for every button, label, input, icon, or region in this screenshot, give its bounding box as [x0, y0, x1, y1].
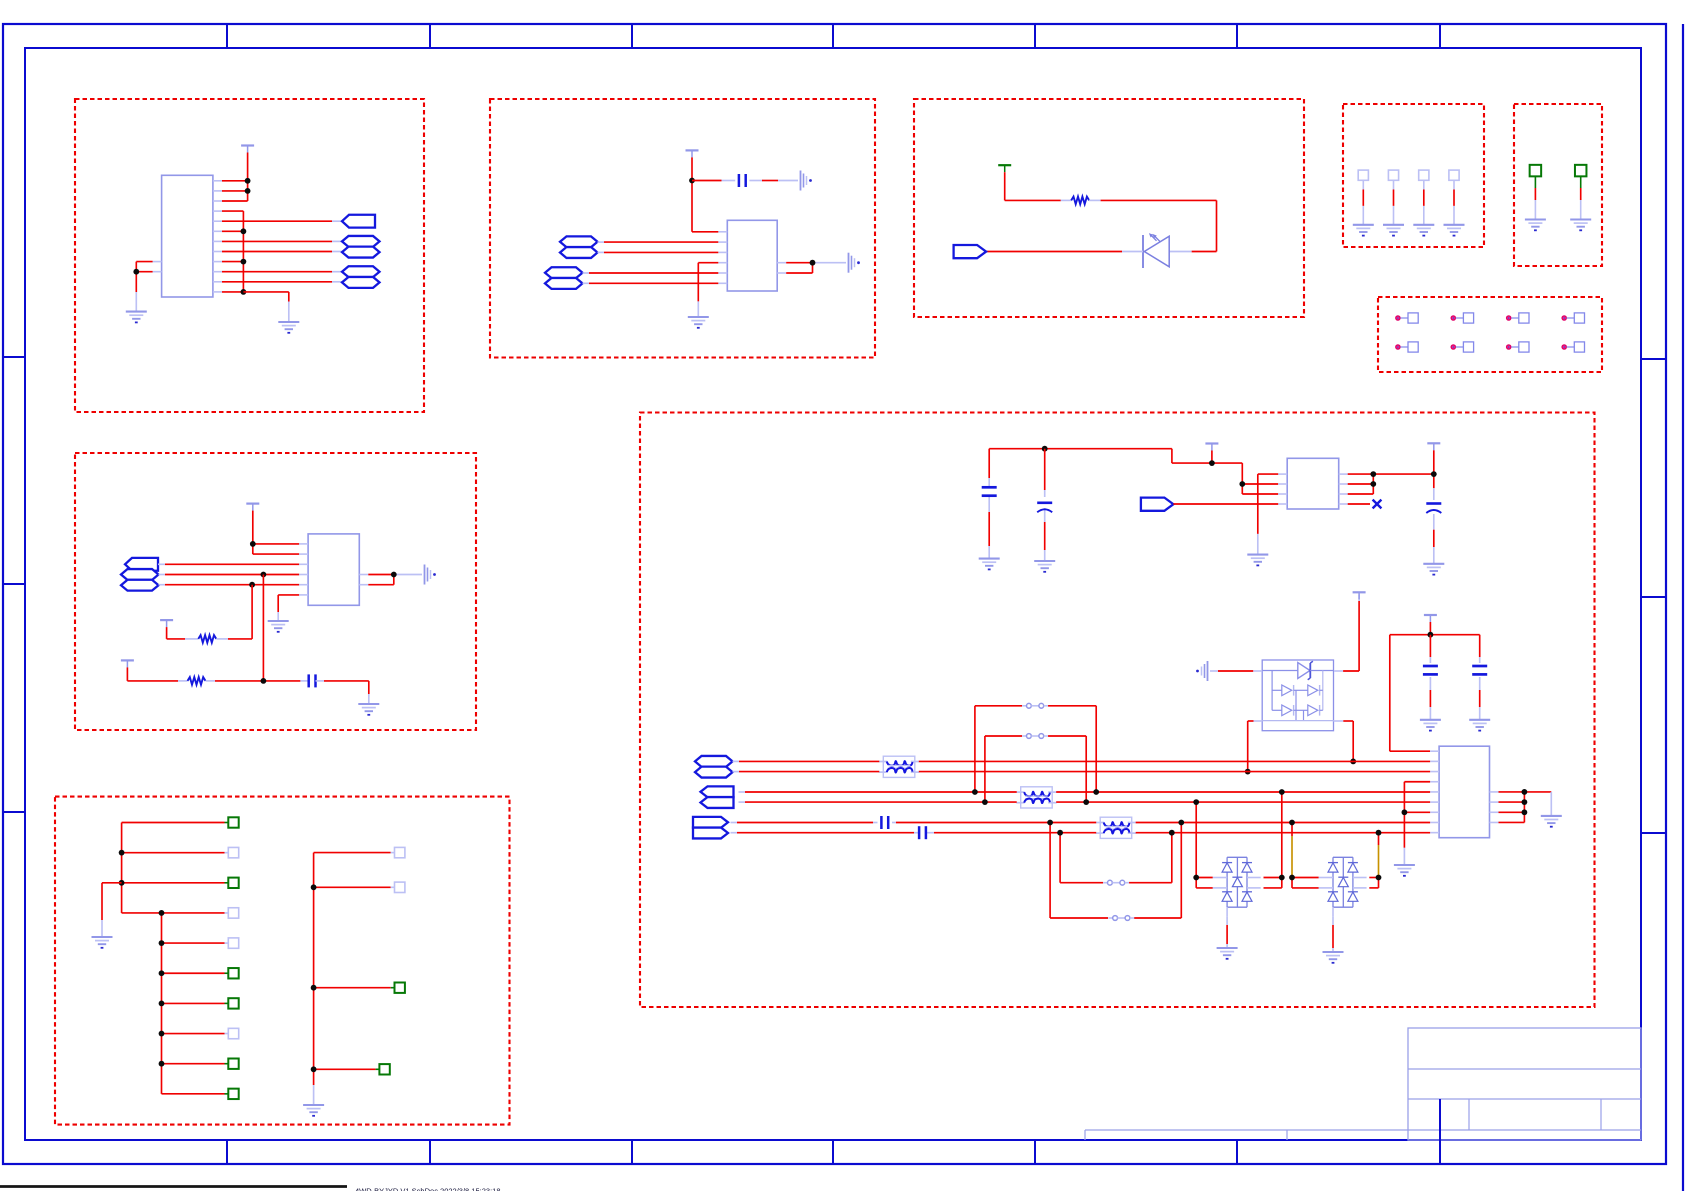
wire VCC D3 to R3	[127, 667, 187, 681]
junction dot B vcc	[689, 178, 695, 184]
ground D right (sideways)	[425, 565, 436, 585]
net label tag F2b	[701, 797, 734, 808]
wire VCC F1 stub	[1211, 451, 1213, 464]
ground C7	[1423, 564, 1444, 575]
wire row2a	[739, 791, 1431, 793]
wire VCC B rail	[692, 157, 718, 231]
capacitor C8	[1423, 666, 1438, 674]
testpoint TP4	[1449, 170, 1459, 225]
junction dot D bottom	[261, 678, 267, 684]
net label hex D2	[121, 569, 159, 580]
IC U2	[718, 220, 786, 291]
wire pin5 branch to R2	[251, 585, 253, 639]
junction dot J5 gnd	[1402, 809, 1408, 815]
diode array D2	[1262, 660, 1333, 731]
ground MH2	[1570, 220, 1591, 231]
wire common net U1 pins 4,6,9,12	[222, 211, 243, 292]
ground U4	[1247, 555, 1268, 566]
jumper JP2	[985, 734, 1086, 803]
testpoint TP3	[1419, 170, 1429, 225]
wire P2 to U4 pin4	[1173, 503, 1278, 505]
power VCC F1 right	[1427, 443, 1440, 450]
wire D3 ground	[1226, 916, 1228, 948]
testpoint TP2	[1388, 170, 1398, 225]
fiducial pad F4	[1562, 313, 1584, 323]
ground B right (sideways)	[849, 253, 860, 273]
wire U1 pin11 to net label	[222, 281, 342, 283]
wire VCC D to U3 pins 1-2	[253, 511, 299, 554]
LED D1	[1143, 233, 1169, 268]
ground A left	[126, 312, 147, 323]
ground E right	[303, 1105, 324, 1116]
wire C8 leads	[1429, 635, 1431, 720]
wire U1 pin5 to net label	[222, 220, 342, 222]
svg-text:4WD-BYJYD V1.SchDoc 2022/3/8: 4WD-BYJYD V1.SchDoc 2022/3/8 15:23:18	[355, 1187, 501, 1191]
ground C8	[1420, 720, 1441, 731]
ground C6	[1034, 561, 1055, 572]
wire header pin 5	[162, 942, 229, 944]
choke L3	[1096, 817, 1137, 838]
junction dot VCC right	[1431, 471, 1437, 477]
wire D2 right to power	[1334, 595, 1359, 672]
ground TP3	[1413, 225, 1434, 236]
capacitor C6 (polarized)	[1037, 503, 1052, 513]
wire C6 leads	[1044, 449, 1046, 561]
wire VCC F2 rail	[1390, 622, 1480, 751]
power VCC D3	[121, 660, 134, 667]
wire E ground branch	[102, 883, 122, 937]
fiducial pad F5	[1396, 342, 1418, 352]
ground B bottom	[688, 317, 709, 328]
capacitor C11 (series row3b)	[919, 826, 926, 839]
power VCC F2	[1424, 615, 1437, 622]
wire B2b to U2 pin6	[583, 282, 719, 284]
sheet symbol box C	[914, 99, 1304, 317]
power rail C (green)	[998, 165, 1011, 172]
wire header-right pin 1	[314, 852, 395, 854]
wire D2 to U3 pin4	[159, 574, 300, 576]
wire D1 to U3 pin3	[158, 563, 299, 565]
wire D2 left to ground	[1210, 670, 1262, 672]
junction dot B right	[810, 260, 816, 266]
fiducial pad F7	[1507, 342, 1529, 352]
wire C2 to ground D	[316, 681, 369, 704]
IC U4 regulator	[1278, 458, 1348, 509]
wire D4 left (yellow link)	[1292, 823, 1319, 888]
mounting pad MH1	[1530, 165, 1542, 220]
net label hex B1b	[560, 247, 598, 258]
wire header-right pin 3	[314, 987, 395, 989]
sheet symbol box A	[75, 99, 424, 412]
capacitor C10 (series row3a)	[881, 816, 888, 829]
power VCC D	[246, 504, 259, 511]
wire header pin 3	[122, 882, 229, 884]
pad header-left 8	[228, 1028, 238, 1038]
wire U1 pin10 to net label	[222, 271, 342, 273]
wire header pin 2	[122, 852, 229, 854]
junction dot D pin4	[261, 572, 267, 578]
wire row3b	[731, 832, 1431, 834]
fiducial pad F8	[1562, 342, 1584, 352]
wire C5 leads	[988, 449, 990, 559]
wire header pin 7	[162, 1002, 229, 1004]
wire U4 outputs right	[1348, 474, 1434, 494]
ground TP2	[1383, 225, 1404, 236]
wire D2 low-side right to CAN line	[1334, 721, 1354, 761]
ground TP1	[1353, 225, 1374, 236]
net label hex A4	[342, 266, 380, 277]
wire header-right pin 2	[314, 886, 395, 888]
pad header-left 5	[228, 938, 238, 948]
wire U2 right pins to ground	[786, 263, 846, 273]
jumper JP4	[1050, 823, 1181, 921]
net label tag D1	[125, 558, 158, 571]
net label tag F3a	[693, 817, 728, 828]
wire header bus right	[313, 853, 315, 1105]
net label tag F3b	[693, 828, 728, 839]
ground D cap	[358, 704, 379, 715]
choke L1	[879, 756, 920, 777]
port P2	[1141, 498, 1174, 511]
sheet symbol box I	[1378, 297, 1602, 372]
ground J5 right	[1541, 816, 1562, 827]
wire R2 to pin5 branch	[216, 638, 252, 640]
wire D3 to U3 pin5	[159, 584, 300, 586]
wire VCC to U1 pins 1-3	[222, 153, 248, 202]
wire R1 to LED anode	[1089, 200, 1217, 251]
net label hex D3	[121, 580, 159, 591]
wire row1b	[733, 771, 1431, 773]
wire header bus left	[122, 823, 162, 1094]
IC U1	[153, 175, 222, 297]
fiducial pad F1	[1396, 313, 1418, 323]
wire J5 pin4/pin7 ground	[1404, 782, 1430, 865]
port P1	[954, 245, 987, 258]
pad header-left 2	[228, 847, 238, 857]
title block	[1085, 1028, 1641, 1164]
wire D3 right	[1264, 792, 1282, 888]
junction dot F1 a	[1209, 460, 1215, 466]
junction dots E left	[119, 850, 165, 1067]
net label hex F1a	[695, 756, 733, 767]
junction dots U4 out	[1370, 471, 1376, 487]
junction dots VCC net	[245, 178, 251, 194]
net label hex B2a	[545, 267, 583, 278]
no-connect X U4 pin	[1348, 500, 1382, 509]
capacitor C2 (series)	[309, 674, 316, 687]
wire header pin 4	[162, 912, 229, 914]
ground E left	[92, 937, 113, 948]
sheet symbol box B	[490, 99, 875, 358]
TVS array D4	[1319, 857, 1367, 916]
wire U1 left pins to ground	[136, 262, 152, 312]
power VCC F1	[1205, 444, 1218, 451]
wire header pin 10	[162, 1093, 229, 1095]
fiducial pad F6	[1451, 342, 1473, 352]
junction dot D pin5	[249, 582, 255, 588]
net label tag A1	[342, 215, 375, 228]
net label hex B2b	[545, 278, 583, 289]
sheet symbol box H	[1514, 104, 1602, 266]
wire U4 pin1 to ground	[1258, 474, 1278, 554]
pad header-right 4	[379, 1064, 389, 1074]
net label hex F1b	[695, 767, 733, 778]
junction dot left	[133, 269, 139, 275]
junction dots JP2	[982, 799, 1089, 805]
net label hex A2	[342, 236, 380, 247]
wire row1a	[733, 760, 1431, 762]
junction dots D4 left	[1289, 820, 1295, 881]
fiducial pad F2	[1451, 313, 1473, 323]
junction dots JP1	[972, 789, 1099, 795]
wire R3 to capacitor C-D	[206, 680, 309, 682]
junction dot D2-b	[1350, 759, 1356, 765]
fiducial pad F3	[1507, 313, 1529, 323]
wire row3a	[731, 822, 1431, 824]
resistor R1	[1071, 197, 1089, 205]
wire F1 power rail	[989, 449, 1278, 494]
wire U1 pin8 to net label	[222, 251, 342, 253]
power VCC B	[686, 150, 699, 157]
junction dot D vcc	[250, 541, 256, 547]
wire header-right pin 4	[314, 1068, 380, 1070]
wire VCC to cap C4	[692, 180, 735, 182]
wire D3 left	[1196, 802, 1213, 888]
net label hex A3	[342, 247, 380, 258]
ground C9	[1469, 720, 1490, 731]
pad header-left 9	[228, 1059, 238, 1069]
junction dots common net	[241, 228, 247, 294]
wire U1 pin12 to ground	[243, 292, 288, 322]
net label hex B1a	[560, 236, 598, 247]
testpoint TP1	[1358, 170, 1368, 225]
wire B2a to U2 pin5	[583, 272, 719, 274]
junction dots D4 right	[1376, 830, 1382, 881]
pad header-right 2	[395, 882, 405, 892]
wire VCC D2 to R2	[167, 627, 199, 639]
connector J5	[1430, 746, 1498, 838]
sheet symbol box E	[55, 797, 510, 1125]
net label tag F2a	[701, 786, 734, 797]
ground A right	[278, 322, 299, 333]
ground J5 left	[1394, 865, 1415, 876]
wire VCC right to C7	[1433, 450, 1435, 564]
junction dots J5 right	[1522, 789, 1528, 815]
ground D2 (sideways left)	[1196, 661, 1207, 681]
wire D4 ground	[1332, 916, 1334, 952]
junction dot F2 rail	[1428, 632, 1434, 638]
wire U3 right pins to ground	[368, 575, 422, 585]
ground D4	[1323, 952, 1344, 963]
TVS array D3	[1213, 857, 1261, 916]
wire power to resistor R1	[1005, 172, 1072, 200]
net label hex A5	[342, 277, 380, 288]
ground MH1	[1525, 220, 1546, 231]
ground TP4	[1444, 225, 1465, 236]
power VCC A	[241, 146, 254, 153]
wire U3 pin6 to ground	[278, 595, 299, 621]
ground D3	[1217, 948, 1238, 959]
pad header-left 7	[228, 998, 238, 1008]
wire header pin 9	[162, 1063, 229, 1065]
capacitor C7 (polarized)	[1426, 504, 1441, 514]
junction dot F1 c	[1042, 446, 1048, 452]
capacitor C5	[982, 487, 997, 495]
ground C5	[979, 559, 1000, 570]
wire U2 pin4 to ground	[698, 263, 718, 317]
wire header pin 8	[162, 1033, 229, 1035]
junction dots E right	[311, 884, 317, 1072]
mounting pad MH2	[1575, 165, 1587, 220]
pad header-right 3	[395, 983, 405, 993]
capacitor C9	[1472, 666, 1487, 674]
sheet symbol box F	[640, 413, 1595, 1008]
wire header pin 6	[162, 972, 229, 974]
resistor R3	[188, 677, 206, 685]
wire bias divider vertical	[262, 575, 264, 681]
wire D2 low-side left to CAN line	[1248, 721, 1263, 772]
bottom window edge	[0, 1187, 501, 1191]
capacitor C4	[739, 174, 746, 187]
junction dot F1 b	[1239, 481, 1245, 487]
wire J5 right pins common	[1499, 792, 1552, 823]
junction dots D3 left	[1193, 799, 1199, 880]
junction dots JP3	[1057, 830, 1175, 836]
junction dots D3 right	[1279, 789, 1285, 880]
sheet symbol box D	[75, 453, 476, 730]
wire B1b to U2 pin3	[598, 251, 719, 253]
junction dot D2-a	[1245, 769, 1251, 775]
wire LED cathode to port	[986, 251, 1143, 253]
sheet symbol box G	[1343, 104, 1484, 247]
wire B1a to U2 pin2	[598, 241, 719, 243]
pad header-right 1	[395, 847, 405, 857]
wire header pin 1	[122, 822, 229, 824]
pad header-left 1	[228, 817, 238, 827]
ground D pin6	[268, 621, 289, 632]
junction dot D right	[391, 572, 397, 578]
pad header-left 6	[228, 968, 238, 978]
choke L2	[1016, 787, 1056, 808]
ground B right-top (sideways)	[801, 171, 812, 191]
wire D4 right (yellow link)	[1369, 833, 1378, 888]
wire U1 pin7 to net label	[222, 240, 342, 242]
pad header-left 4	[228, 908, 238, 918]
IC U3	[299, 534, 368, 605]
resistor R2	[198, 635, 216, 643]
wire C9 leads	[1479, 635, 1481, 720]
pad header-left 3	[228, 878, 238, 888]
wire C4 to ground	[749, 180, 798, 182]
junction dots JP4	[1047, 820, 1184, 826]
wire row2b	[739, 801, 1431, 803]
jumper JP3	[1060, 833, 1172, 885]
power VCC D2	[1353, 592, 1366, 599]
power VCC D2	[160, 620, 173, 627]
pad header-left 10	[228, 1089, 238, 1099]
jumper JP1	[975, 703, 1096, 792]
